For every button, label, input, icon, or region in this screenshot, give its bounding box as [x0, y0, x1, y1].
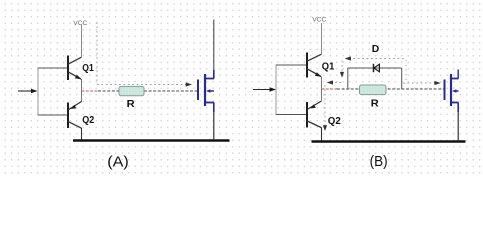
dashed annotation vertical A: [96, 22, 98, 84]
wire: Q1 base A: [38, 67, 67, 69]
Q2 emitter diagonal (upper): [68, 102, 82, 111]
svg-text:Q1: Q1: [322, 61, 335, 73]
diode branch right vertical: [401, 68, 403, 89]
wire: emitter to output vertical A: [81, 79, 83, 102]
Q2 emitter diagonal upper (B): [307, 101, 322, 110]
wire: input line A: [18, 90, 32, 92]
svg-text:Q2: Q2: [328, 115, 341, 127]
svg-text:(A): (A): [107, 154, 129, 171]
resistor R (A) body: [119, 86, 144, 95]
wire: VCC vertical A: [81, 25, 83, 57]
Q2 emitter arrowhead (PNP) (B): [310, 104, 316, 108]
annotation arrowhead right A: [186, 82, 192, 86]
diode branch left vertical: [347, 68, 349, 89]
dashed annotation horizontal A: [97, 84, 186, 86]
wire: Q2 base A: [38, 114, 67, 116]
wire: emitter to output vertical B: [321, 77, 323, 101]
Q1 collector diagonal: [68, 57, 82, 64]
ground rail A: [73, 139, 230, 141]
diode branch top horizontal: [348, 67, 402, 69]
Q1 collector diagonal (B): [307, 54, 322, 61]
wire: Q1 base B: [276, 64, 306, 66]
wire: VCC vertical B: [321, 23, 323, 54]
mosfet M2 body stub: [455, 90, 459, 92]
svg-text:(B): (B): [370, 153, 388, 170]
down arrowhead at ground (x=325): [323, 125, 327, 131]
mosfet M2 channel bar: [450, 74, 452, 106]
dashed vertical along Q2: [324, 85, 326, 126]
svg-text:VCC: VCC: [312, 16, 326, 23]
Q1 emitter arrowhead (NPN): [75, 75, 81, 80]
mosfet M2 body arrow: [452, 89, 457, 93]
wire: Q2 collector to ground B: [321, 128, 323, 142]
transistor Q2 bar (B): [306, 102, 308, 128]
dotted vertical right of diode: [405, 60, 407, 84]
wire: output to gate (dashed look) A: [98, 90, 197, 92]
Q2 collector diagonal lower (B): [307, 121, 322, 128]
transistor Q1 bar (B): [306, 53, 308, 78]
mosfet M1 source stub: [205, 102, 214, 104]
input arrowhead A: [31, 89, 38, 94]
wire: drain short stub up (B): [457, 70, 459, 79]
dashed turnoff horizontal above diode: [349, 58, 406, 60]
gate arrowhead right B: [434, 81, 440, 85]
down arrowhead (x=342): [340, 72, 344, 78]
svg-text:VCC: VCC: [73, 20, 87, 27]
dashed horizontal to gate B: [403, 82, 435, 84]
Q1 emitter diagonal: [68, 72, 81, 79]
wire: input vertical B: [275, 65, 277, 116]
turnoff arrowhead left at top: [345, 56, 351, 60]
svg-text:R: R: [127, 98, 135, 110]
resistor R (B) body: [360, 85, 387, 95]
Q1 emitter diagonal (B): [307, 69, 321, 77]
transistor Q1 bar: [67, 56, 69, 81]
Q2 collector diagonal (lower): [68, 121, 82, 128]
Q2 emitter arrowhead (PNP, points to bar): [71, 105, 77, 109]
mosfet M1 channel bar: [204, 74, 206, 106]
wire: input line B: [253, 89, 271, 91]
mosfet M1 (A) gate bar: [197, 80, 199, 101]
diode D triangle: [374, 64, 380, 72]
mosfet M1 drain stub: [205, 78, 214, 80]
wire: output to gate (dashed look) B: [337, 88, 444, 90]
wire: red output segment A: [82, 90, 99, 92]
wire: Q2 base B: [276, 114, 306, 116]
diode D cathode bar: [373, 64, 375, 72]
dashed horizontal into Q2 (left arrow): [331, 82, 342, 84]
wire: input vertical A: [37, 68, 39, 116]
svg-text:R: R: [371, 98, 379, 110]
Q1 emitter arrowhead (NPN) (B): [315, 72, 321, 77]
mosfet M2 source stub: [451, 102, 459, 104]
svg-text:Q1: Q1: [82, 62, 94, 74]
mosfet M1 body stub: [210, 90, 215, 92]
wire: Q2 collector to ground A: [81, 128, 83, 140]
dashed vertical with down arrow (x=342): [341, 61, 343, 73]
ground rail B: [312, 140, 466, 142]
mosfet M1 body arrow: [206, 89, 211, 93]
left arrowhead at Q2: [327, 80, 333, 84]
wire: source down to rail (B): [457, 103, 459, 113]
transistor Q2 bar: [67, 103, 69, 129]
wire: source down to rail (A): [213, 103, 215, 113]
svg-text:D: D: [372, 43, 380, 55]
input arrowhead B: [270, 87, 277, 92]
wire: red output segment B: [322, 88, 338, 90]
wire: drain up (A): [213, 70, 215, 79]
svg-text:Q2: Q2: [82, 114, 94, 126]
mosfet M2 (B) gate bar: [444, 80, 446, 101]
mosfet M2 drain stub: [451, 78, 459, 80]
